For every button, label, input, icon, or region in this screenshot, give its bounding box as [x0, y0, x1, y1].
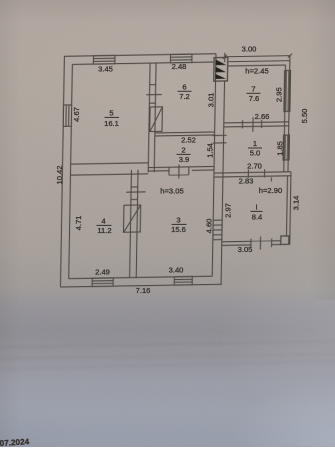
svg-text:5.0: 5.0	[250, 149, 261, 158]
dimension line 3.00 with end ticks	[223, 52, 292, 63]
svg-text:11.2: 11.2	[97, 226, 111, 235]
svg-text:2.52: 2.52	[181, 135, 196, 144]
room I label	[251, 203, 263, 222]
svg-text:h=2.45: h=2.45	[245, 67, 268, 76]
wire: central column wall left line	[212, 54, 216, 276]
svg-text:15.6: 15.6	[171, 225, 186, 234]
svg-text:3.14: 3.14	[292, 196, 301, 211]
wall between rooms 5 and 6	[145, 63, 162, 172]
svg-text:2.97: 2.97	[224, 203, 233, 218]
svg-text:1.85: 1.85	[275, 141, 284, 156]
svg-text:7.2: 7.2	[179, 92, 190, 101]
svg-text:3.00: 3.00	[242, 44, 257, 53]
window W1 top of room 5	[93, 55, 115, 64]
svg-text:10.42: 10.42	[55, 165, 64, 184]
svg-text:2.48: 2.48	[172, 62, 187, 71]
svg-text:3.40: 3.40	[169, 266, 184, 275]
stove on wall 4/3	[123, 205, 140, 232]
room 6 label	[178, 83, 192, 102]
svg-text:7.6: 7.6	[249, 94, 260, 103]
svg-text:5.50: 5.50	[300, 109, 309, 124]
wire: bottom wall outer line	[60, 284, 221, 287]
wire: top wall outer line	[64, 54, 216, 57]
wire: top wall inner line	[72, 62, 214, 64]
wire: left wall outer line	[60, 56, 64, 287]
room 3 label	[171, 216, 186, 235]
svg-text:2.49: 2.49	[95, 267, 110, 276]
window W4 bottom of room 4	[92, 278, 113, 287]
svg-text:2.70: 2.70	[247, 162, 262, 171]
svg-text:h=3.05: h=3.05	[160, 187, 183, 196]
svg-text:3.01: 3.01	[207, 93, 216, 108]
wall between room 1 and room I	[214, 169, 291, 183]
svg-text:1: 1	[253, 139, 257, 148]
svg-text:6: 6	[182, 83, 186, 92]
room 2 label	[177, 145, 191, 164]
svg-text:5: 5	[109, 109, 113, 118]
wire: central column wall right line	[221, 81, 224, 284]
door opening ticks in wall between rooms 2 and 1	[212, 135, 226, 143]
svg-text:4.60: 4.60	[205, 219, 214, 234]
room I right wall	[286, 172, 291, 245]
svg-text:7.16: 7.16	[136, 286, 151, 295]
window W3 left wall of room 5	[63, 105, 71, 127]
svg-text:I: I	[255, 203, 257, 212]
svg-text:16.1: 16.1	[104, 119, 119, 128]
wall between rooms 5 and 4	[70, 163, 148, 175]
wall between rooms 7 and 1	[224, 117, 289, 133]
svg-text:h=2.90: h=2.90	[259, 186, 282, 195]
svg-text:2.66: 2.66	[255, 112, 270, 121]
svg-text:7: 7	[251, 84, 255, 93]
right wall of rooms 7 and 1	[284, 61, 290, 172]
room I bottom wall	[222, 236, 281, 250]
svg-text:.07.2024: .07.2024	[0, 437, 30, 447]
window W2 top of room 6	[170, 54, 192, 63]
svg-text:3: 3	[176, 216, 180, 225]
room I bottom-right corner post	[281, 236, 289, 245]
svg-text:2.83: 2.83	[239, 177, 254, 186]
stove on wall 5/6	[150, 107, 163, 132]
svg-text:3.9: 3.9	[179, 155, 190, 164]
right section top wall	[228, 61, 290, 66]
wall between rooms 2 and 3 with door opening	[148, 164, 214, 179]
svg-text:2.95: 2.95	[275, 87, 284, 102]
window in wall between room 3 and room I	[213, 220, 222, 240]
room 1 label	[248, 139, 262, 158]
svg-text:3.45: 3.45	[98, 65, 113, 74]
svg-text:2: 2	[181, 145, 185, 154]
room 4 label	[97, 217, 112, 236]
wire: bottom wall inner line	[69, 276, 213, 278]
svg-text:4.71: 4.71	[74, 216, 83, 231]
svg-text:1.54: 1.54	[205, 143, 214, 158]
room 5 label	[104, 109, 119, 128]
svg-text:8.4: 8.4	[252, 212, 263, 221]
svg-text:4.67: 4.67	[72, 107, 81, 122]
chimney flue block	[214, 57, 228, 81]
window right wall of room 1	[283, 135, 289, 160]
svg-text:4: 4	[101, 217, 105, 226]
window W5 bottom of room 3	[174, 277, 192, 286]
svg-text:3.05: 3.05	[238, 245, 253, 254]
window right wall of room 7	[284, 70, 291, 111]
wire: left wall inner line	[69, 64, 73, 278]
room 7 label	[247, 84, 261, 103]
wall between rooms 4 and 3	[125, 170, 146, 278]
wall between rooms 6 and 2	[155, 132, 215, 136]
